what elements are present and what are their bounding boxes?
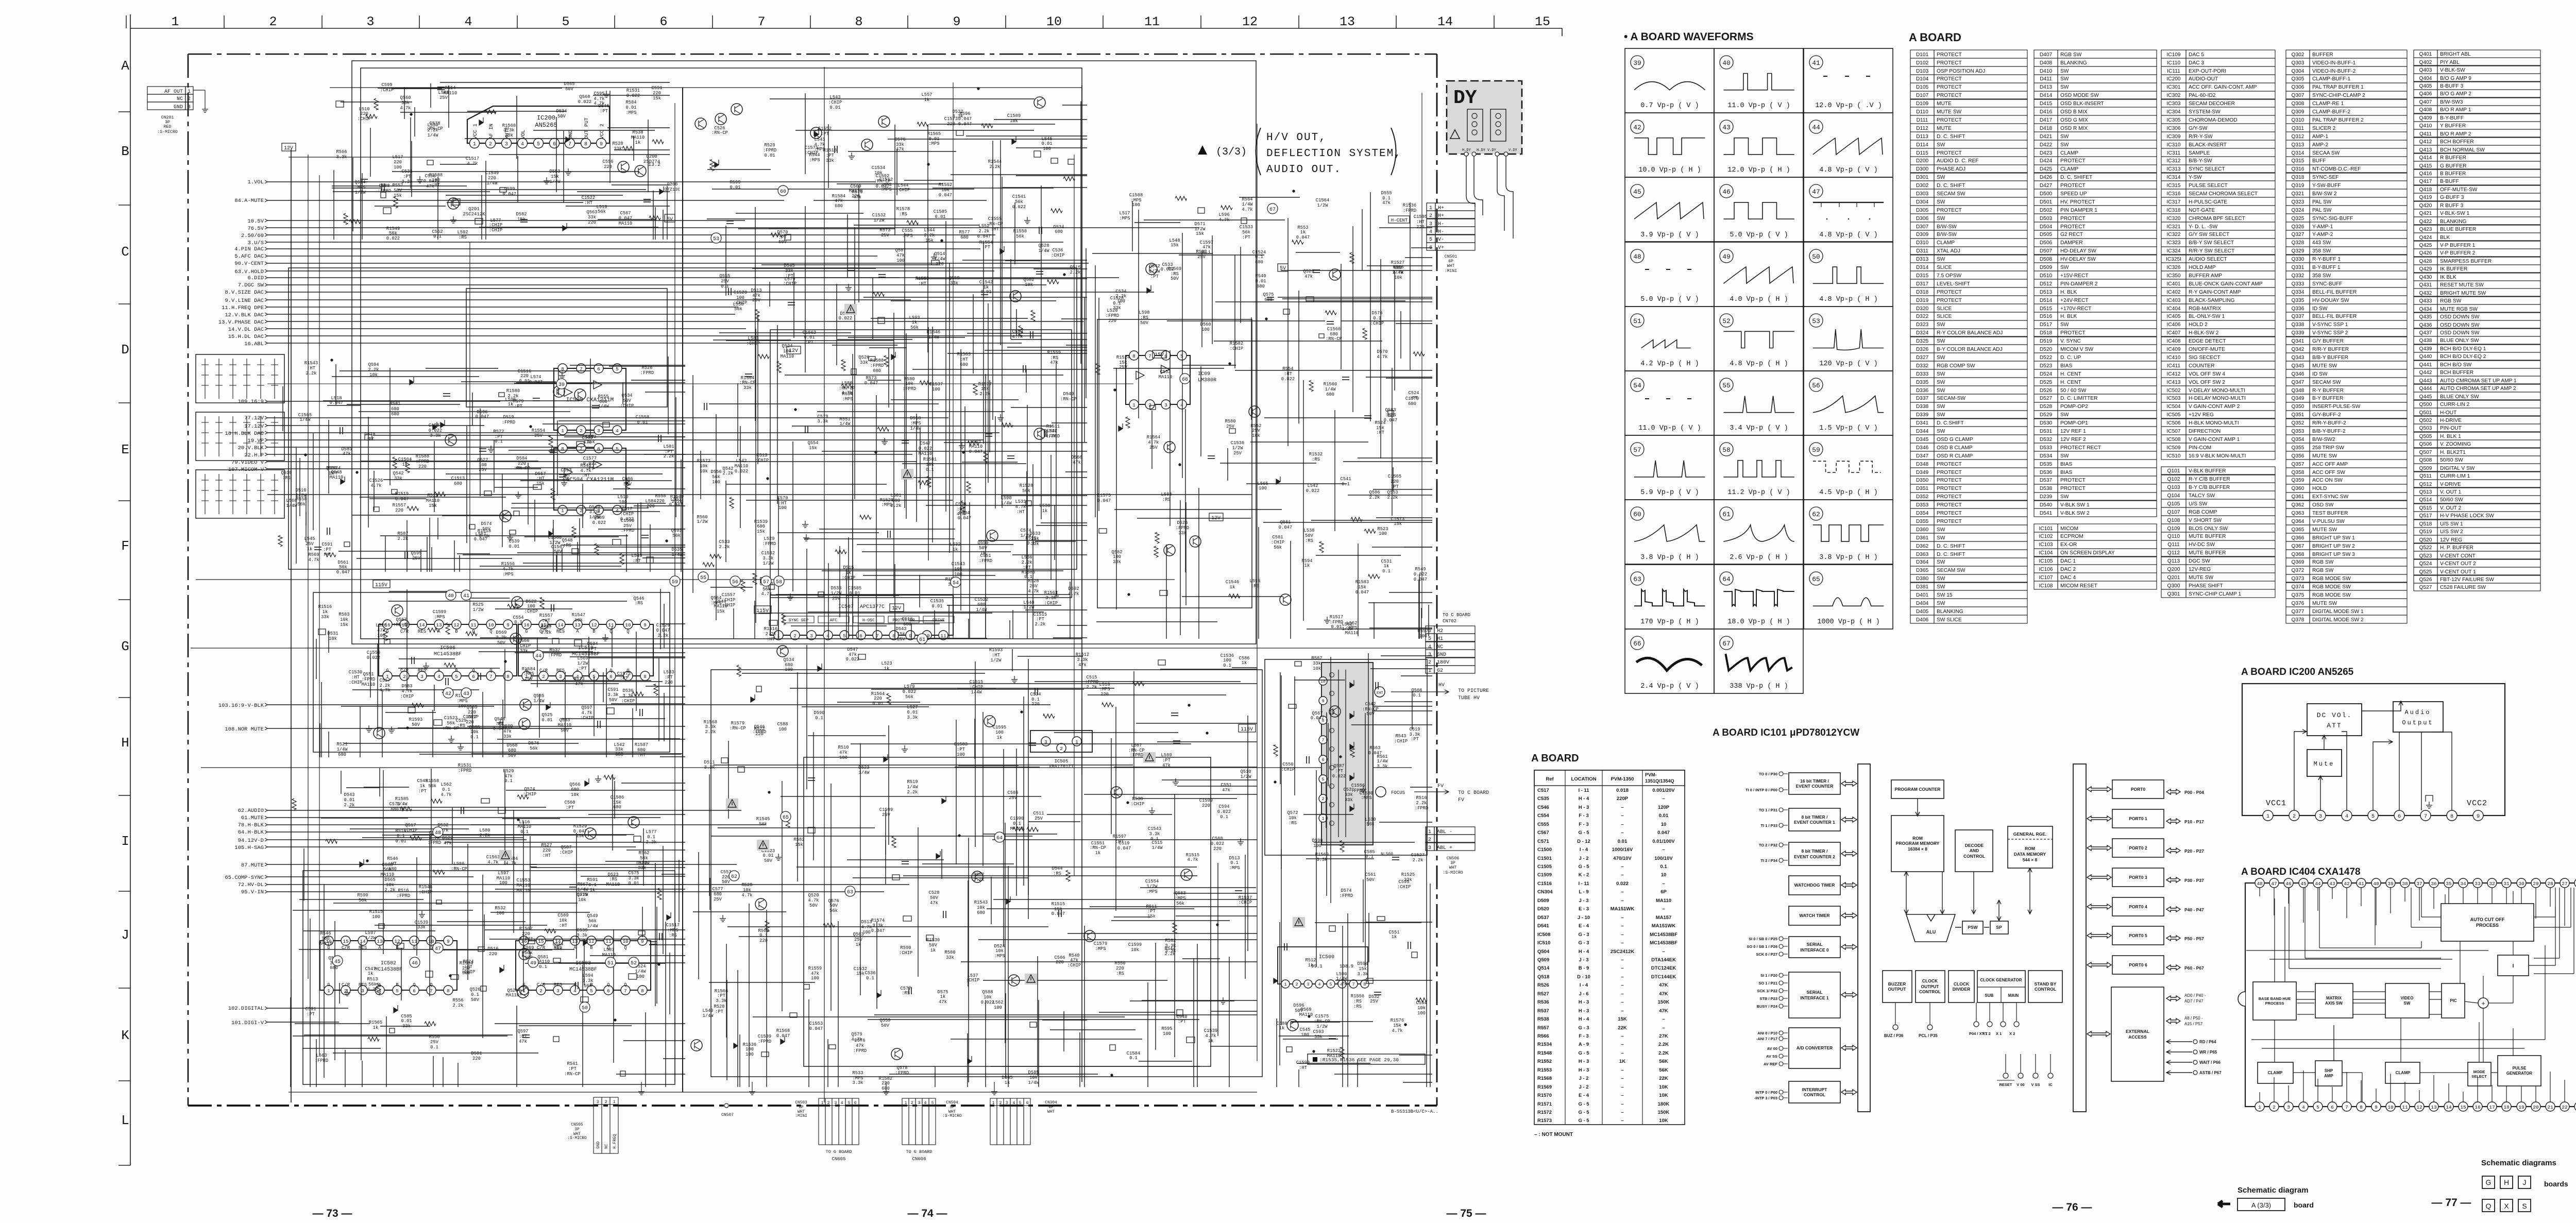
svg-text:PORT0 5: PORT0 5 xyxy=(2129,933,2147,938)
svg-text:D111: D111 xyxy=(1917,117,1928,123)
svg-text::MPS: :MPS xyxy=(354,185,365,190)
waveform 62 xyxy=(1804,500,1893,564)
waveform 65 xyxy=(1804,565,1893,629)
svg-text:0.1: 0.1 xyxy=(759,933,768,938)
svg-text:2.2k: 2.2k xyxy=(890,503,901,508)
svg-text:680: 680 xyxy=(714,892,722,897)
svg-text:Q332: Q332 xyxy=(2292,273,2304,279)
svg-text:50V: 50V xyxy=(778,240,787,245)
svg-text:XTAL ADJ: XTAL ADJ xyxy=(1937,248,1960,254)
svg-text:1/2W: 1/2W xyxy=(831,591,842,596)
svg-text:SLICE: SLICE xyxy=(1937,265,1952,270)
svg-text:D380: D380 xyxy=(1916,576,1929,582)
svg-text:0.022: 0.022 xyxy=(1332,774,1346,779)
svg-text:NC: NC xyxy=(604,1144,609,1149)
svg-text:C1558: C1558 xyxy=(636,415,649,420)
svg-text:–: – xyxy=(1621,932,1623,938)
svg-text:Q566: Q566 xyxy=(569,782,580,787)
svg-text:0.01: 0.01 xyxy=(1041,141,1052,146)
svg-text:I: I xyxy=(2513,963,2514,969)
svg-text:Q: Q xyxy=(413,982,415,988)
svg-text:C584: C584 xyxy=(1416,1000,1427,1006)
svg-text:0.01: 0.01 xyxy=(935,214,945,219)
svg-text:56k: 56k xyxy=(383,867,392,872)
svg-text:Q509: Q509 xyxy=(2419,466,2432,471)
svg-text::MPS: :MPS xyxy=(434,615,445,620)
svg-text:H. CENT: H. CENT xyxy=(2060,371,2081,377)
svg-text:G BUFFER: G BUFFER xyxy=(2440,163,2467,169)
svg-text:(3/3): (3/3) xyxy=(1216,146,1247,158)
svg-text:43: 43 xyxy=(2329,881,2335,887)
op-amp IC504 CXA1211M xyxy=(554,448,626,510)
svg-text:R529: R529 xyxy=(503,769,514,774)
svg-text:3.3k: 3.3k xyxy=(872,923,883,928)
svg-text:47k: 47k xyxy=(562,478,570,483)
svg-text:C1515: C1515 xyxy=(970,680,983,685)
svg-text:16:9 V-BLK MON-MULTI: 16:9 V-BLK MON-MULTI xyxy=(2189,453,2246,459)
svg-text:L587: L587 xyxy=(603,947,614,953)
svg-text:H-V PHASE LOCK SW: H-V PHASE LOCK SW xyxy=(2440,513,2494,519)
svg-text:21: 21 xyxy=(2547,1105,2553,1110)
svg-text:C586: C586 xyxy=(1007,790,1018,795)
svg-text:BCH B/O DLY-EQ 1: BCH B/O DLY-EQ 1 xyxy=(2440,346,2486,352)
svg-text:C1543: C1543 xyxy=(1148,826,1161,831)
svg-text:Q355: Q355 xyxy=(2292,445,2304,451)
svg-text:5: 5 xyxy=(1180,353,1183,359)
svg-text:1: 1 xyxy=(1429,206,1432,211)
svg-text:J - 2: J - 2 xyxy=(1579,856,1588,861)
svg-text:3.3k: 3.3k xyxy=(503,128,514,133)
svg-text:0.047: 0.047 xyxy=(1296,235,1310,240)
svg-text:CONTROL: CONTROL xyxy=(1963,854,1985,859)
svg-text:33k: 33k xyxy=(615,747,623,752)
svg-text:D105: D105 xyxy=(1916,84,1929,90)
svg-text:Q342: Q342 xyxy=(2292,347,2304,352)
signal table column D101 xyxy=(1910,50,1934,58)
svg-text:1: 1 xyxy=(1428,829,1431,835)
svg-text:OSD R MIX: OSD R MIX xyxy=(2060,126,2088,131)
svg-text:3.3k: 3.3k xyxy=(628,876,639,881)
svg-text:680: 680 xyxy=(1264,297,1273,302)
svg-text:12: 12 xyxy=(2416,1105,2422,1110)
Audio Output box xyxy=(2393,702,2443,732)
svg-text:Q419: Q419 xyxy=(2419,195,2432,200)
svg-text:4.0 Vp-p ( H ): 4.0 Vp-p ( H ) xyxy=(1730,296,1788,303)
svg-text:100: 100 xyxy=(957,752,965,757)
svg-text:D333: D333 xyxy=(1916,371,1929,377)
svg-text:HV: HV xyxy=(1438,683,1445,688)
svg-text:11: 11 xyxy=(2402,1105,2408,1110)
svg-text:L532: L532 xyxy=(950,542,960,547)
svg-text::HT: :HT xyxy=(767,637,775,642)
svg-text:Q437: Q437 xyxy=(2419,330,2432,336)
svg-text:10: 10 xyxy=(2387,1105,2394,1110)
svg-text::CHIP: :CHIP xyxy=(896,188,910,193)
svg-text:IC325I: IC325I xyxy=(2166,257,2181,262)
svg-text:R1583: R1583 xyxy=(957,352,971,357)
svg-text:0.1: 0.1 xyxy=(1342,482,1350,487)
svg-text::FPRD: :FPRD xyxy=(763,148,776,153)
svg-text:D514: D514 xyxy=(2040,298,2053,303)
svg-text:IC403: IC403 xyxy=(2166,298,2181,303)
svg-text:D. C. SHIFT: D. C. SHIFT xyxy=(1937,134,1965,140)
svg-text:15k: 15k xyxy=(795,842,803,847)
svg-text:PROTECT: PROTECT xyxy=(1937,470,1962,475)
svg-text:SHP: SHP xyxy=(2325,1068,2333,1073)
svg-text:Q585: Q585 xyxy=(533,693,544,699)
svg-text:BLOS ONLY SW: BLOS ONLY SW xyxy=(2189,526,2228,532)
svg-text:1k: 1k xyxy=(590,888,596,893)
svg-text:D565: D565 xyxy=(564,81,574,87)
IC101 port boxes xyxy=(2112,780,2164,799)
svg-text:41: 41 xyxy=(463,593,469,599)
svg-text:56k: 56k xyxy=(640,856,648,861)
program counter xyxy=(1891,780,1944,799)
svg-text:SCK 0 / P27: SCK 0 / P27 xyxy=(1756,952,1777,957)
svg-text:Q439: Q439 xyxy=(2419,346,2432,352)
waveform 41 xyxy=(1804,48,1893,113)
svg-text:5: 5 xyxy=(2371,813,2375,820)
svg-text:CURR-LIN 2: CURR-LIN 2 xyxy=(2440,402,2470,407)
svg-text:1/2W: 1/2W xyxy=(1240,774,1251,779)
boxed label 12V xyxy=(282,143,296,151)
svg-text:PROTECT: PROTECT xyxy=(1937,52,1962,58)
svg-text:D313: D313 xyxy=(1916,257,1929,262)
svg-text:F - 3: F - 3 xyxy=(1579,813,1589,819)
svg-text:C567: C567 xyxy=(1537,830,1549,836)
svg-text:C1588: C1588 xyxy=(1129,193,1143,198)
svg-text:VIDEO: VIDEO xyxy=(2401,996,2414,1000)
svg-text:15k: 15k xyxy=(717,609,725,614)
svg-text:50V: 50V xyxy=(508,753,517,758)
svg-text:19: 19 xyxy=(2518,1105,2524,1110)
svg-text:Q566: Q566 xyxy=(1411,688,1422,693)
svg-text:220: 220 xyxy=(936,262,944,267)
svg-text:R1583: R1583 xyxy=(1355,580,1369,585)
svg-text:Q343: Q343 xyxy=(2292,355,2304,361)
svg-text:220: 220 xyxy=(1416,225,1425,230)
svg-text::HT: :HT xyxy=(1284,371,1292,377)
svg-text:PROCESS: PROCESS xyxy=(2476,923,2499,928)
svg-text:D558: D558 xyxy=(910,416,921,421)
svg-text:BRIGHT ABL: BRIGHT ABL xyxy=(2440,52,2471,57)
svg-text:1/4W: 1/4W xyxy=(1336,976,1347,981)
matrix axis sw xyxy=(2315,983,2353,1018)
waveform 51 xyxy=(1625,307,1714,371)
svg-text:8: 8 xyxy=(506,674,510,680)
svg-text::MPS: :MPS xyxy=(667,928,678,933)
svg-text:Q309: Q309 xyxy=(2292,109,2304,115)
svg-text:C591: C591 xyxy=(305,1007,316,1012)
svg-text:R582: R582 xyxy=(1165,938,1176,943)
svg-text:Q519: Q519 xyxy=(2419,529,2432,535)
svg-text:AUDIO SELECT: AUDIO SELECT xyxy=(2189,257,2227,262)
svg-text:MA151WK: MA151WK xyxy=(1652,923,1676,929)
sub-circuit enclosure outlines xyxy=(196,61,1427,1084)
svg-text:1k: 1k xyxy=(912,320,918,325)
svg-text:R543: R543 xyxy=(1395,734,1406,739)
svg-text:PROTECT: PROTECT xyxy=(1937,150,1962,156)
svg-text:Q305: Q305 xyxy=(2292,76,2304,82)
svg-text::CHIP: :CHIP xyxy=(966,978,979,983)
svg-text:PROTECT: PROTECT xyxy=(2060,216,2086,222)
svg-text:BUFF: BUFF xyxy=(2312,158,2326,164)
svg-text::FPRD: :FPRD xyxy=(458,768,471,773)
svg-text:5.AFC DAC: 5.AFC DAC xyxy=(234,253,264,260)
svg-text:V GAIN-CONT AMP 2: V GAIN-CONT AMP 2 xyxy=(2189,404,2240,410)
svg-text:C1566: C1566 xyxy=(1327,327,1341,332)
svg-text:H: H xyxy=(2504,1178,2509,1186)
svg-text:DAC 1: DAC 1 xyxy=(2060,558,2076,564)
svg-text:56k: 56k xyxy=(588,919,597,924)
svg-text:0.047: 0.047 xyxy=(1384,418,1397,423)
transistor Q201 2SC2412K xyxy=(448,198,459,209)
svg-text:4: 4 xyxy=(1429,229,1432,235)
svg-text:30: 30 xyxy=(2518,881,2524,887)
svg-text:C1543: C1543 xyxy=(952,562,965,567)
svg-text:-ANI 7 / P17: -ANI 7 / P17 xyxy=(1756,1037,1777,1041)
svg-text:680: 680 xyxy=(454,481,462,486)
svg-text:V-BLK-SW: V-BLK-SW xyxy=(2440,67,2465,73)
svg-text:4: 4 xyxy=(2345,813,2348,820)
svg-text:L519: L519 xyxy=(617,495,628,500)
svg-text:X 2: X 2 xyxy=(2009,1031,2015,1036)
svg-text:4.7k: 4.7k xyxy=(1205,1033,1216,1039)
svg-text:D516: D516 xyxy=(487,946,498,952)
svg-text:4: 4 xyxy=(924,1101,927,1106)
svg-text:C588: C588 xyxy=(379,183,389,189)
svg-text:3.3k: 3.3k xyxy=(1357,972,1368,977)
svg-text:3: 3 xyxy=(361,988,364,994)
svg-text:3.3k: 3.3k xyxy=(1316,857,1327,862)
svg-text:D306: D306 xyxy=(1916,216,1929,222)
svg-text:100: 100 xyxy=(736,295,744,300)
svg-text:0.1: 0.1 xyxy=(1660,864,1667,870)
svg-text:— 77 —: — 77 — xyxy=(2431,1197,2471,1209)
waveform 66 xyxy=(1625,629,1714,693)
svg-text:Q361: Q361 xyxy=(2292,494,2304,500)
svg-text:1k: 1k xyxy=(924,97,930,103)
sum node xyxy=(2478,998,2488,1008)
svg-text:13: 13 xyxy=(377,939,383,944)
svg-text:102.DIGITAL: 102.DIGITAL xyxy=(228,1006,264,1012)
svg-text:PROTECT RECT: PROTECT RECT xyxy=(2060,445,2101,451)
svg-text:Q520: Q520 xyxy=(808,893,819,898)
svg-text:Q103: Q103 xyxy=(2167,485,2180,490)
svg-text:54: 54 xyxy=(1633,382,1641,389)
svg-text:Q321: Q321 xyxy=(2292,191,2304,197)
svg-text::HT: :HT xyxy=(1376,430,1384,435)
svg-text:4.7k: 4.7k xyxy=(1218,217,1229,223)
svg-text:R-Y-BUFF 1: R-Y-BUFF 1 xyxy=(2312,257,2341,262)
svg-text:0.022: 0.022 xyxy=(386,236,400,241)
svg-text:AUTO CMROMA SET UP AMP 1: AUTO CMROMA SET UP AMP 1 xyxy=(2440,378,2517,384)
svg-text:16.ABL: 16.ABL xyxy=(244,341,264,347)
svg-text:0.01: 0.01 xyxy=(1618,839,1628,844)
svg-text:D345: D345 xyxy=(1916,437,1929,443)
svg-text:Schematic diagram: Schematic diagram xyxy=(2238,1186,2309,1195)
svg-text::PT: :PT xyxy=(566,805,574,810)
svg-text:33k: 33k xyxy=(1314,1034,1323,1040)
svg-text:2.2k: 2.2k xyxy=(924,233,935,238)
svg-text:Q557: Q557 xyxy=(1417,629,1428,634)
svg-text:3: 3 xyxy=(1428,845,1431,851)
svg-text::RS: :RS xyxy=(1353,999,1362,1004)
svg-text::FPRD: :FPRD xyxy=(853,1048,867,1054)
svg-text:L580: L580 xyxy=(479,828,490,833)
svg-text:H. BLK 1: H. BLK 1 xyxy=(2440,434,2461,439)
svg-text:680: 680 xyxy=(960,362,968,367)
svg-text:D543: D543 xyxy=(895,626,906,632)
svg-text:IC404: IC404 xyxy=(2166,306,2181,312)
svg-text:Q440: Q440 xyxy=(2419,354,2432,360)
svg-text:RES: RES xyxy=(418,668,426,673)
svg-text:–: – xyxy=(1662,881,1665,887)
svg-text:1/2W: 1/2W xyxy=(990,658,1002,663)
svg-text:H-: H- xyxy=(1438,222,1444,227)
svg-text:2.2k: 2.2k xyxy=(1387,495,1398,500)
svg-text:4: 4 xyxy=(464,14,472,29)
svg-text::RS: :RS xyxy=(1353,1004,1362,1009)
svg-text:Q434: Q434 xyxy=(2419,307,2432,312)
svg-text:56k: 56k xyxy=(428,784,436,789)
svg-text::CHIP: :CHIP xyxy=(783,281,796,286)
svg-text:IC110: IC110 xyxy=(2167,60,2181,66)
svg-text:56k: 56k xyxy=(712,474,720,480)
svg-text:680: 680 xyxy=(977,910,985,915)
svg-text:43: 43 xyxy=(463,691,469,697)
svg-text:1/2W: 1/2W xyxy=(762,561,774,566)
svg-text:H. BLK: H. BLK xyxy=(2060,314,2077,319)
svg-text:INTERRUPT: INTERRUPT xyxy=(1802,1087,1827,1092)
svg-text:3: 3 xyxy=(556,988,560,994)
svg-text:2: 2 xyxy=(2273,1105,2276,1110)
svg-text:R516: R516 xyxy=(398,888,409,893)
svg-text:33k: 33k xyxy=(1178,531,1187,536)
svg-text:150K: 150K xyxy=(1658,999,1670,1005)
svg-text:Q323: Q323 xyxy=(2292,199,2304,205)
svg-text:0.1: 0.1 xyxy=(1382,569,1391,574)
svg-text:10k: 10k xyxy=(574,618,583,623)
svg-text:10: 10 xyxy=(1661,822,1667,827)
svg-text::MPS: :MPS xyxy=(1385,413,1396,418)
svg-text:–: – xyxy=(1621,965,1623,971)
ROM program memory xyxy=(1891,816,1944,872)
svg-text::RS: :RS xyxy=(459,235,467,240)
svg-text:C1590: C1590 xyxy=(621,518,634,523)
svg-text:D568: D568 xyxy=(506,743,517,748)
svg-text:220: 220 xyxy=(665,680,673,685)
svg-text:1: 1 xyxy=(1284,982,1286,987)
svg-text:3.3k: 3.3k xyxy=(762,556,773,561)
svg-text:35: 35 xyxy=(2446,881,2452,887)
svg-text:V-SYNC SSP 2: V-SYNC SSP 2 xyxy=(2312,330,2348,336)
svg-text:56k: 56k xyxy=(530,746,538,751)
svg-text::MPS: :MPS xyxy=(842,397,853,402)
svg-text:8: 8 xyxy=(584,141,587,147)
svg-text:SW: SW xyxy=(2060,453,2069,459)
svg-text:33: 33 xyxy=(2475,881,2481,887)
svg-text::PT: :PT xyxy=(1391,484,1399,489)
svg-text:V. OUT 1: V. OUT 1 xyxy=(2440,489,2462,495)
svg-text:AFC: AFC xyxy=(830,618,838,623)
svg-text:–: – xyxy=(1662,1016,1665,1022)
svg-text:32: 32 xyxy=(2489,881,2495,887)
wire cluster (640,150)-(1300,465) xyxy=(332,82,670,240)
svg-text:10K: 10K xyxy=(1659,1084,1668,1090)
svg-text:MUTE: MUTE xyxy=(1937,126,1952,131)
svg-text:SW: SW xyxy=(2060,76,2069,82)
svg-text::RS: :RS xyxy=(609,877,617,882)
svg-text:2: 2 xyxy=(793,633,796,639)
svg-text:SYSTEM-SW: SYSTEM-SW xyxy=(2189,109,2221,115)
svg-text:PROTECT: PROTECT xyxy=(2060,478,2086,483)
svg-text:D424: D424 xyxy=(2040,158,2053,164)
svg-text:HV. PROTECT: HV. PROTECT xyxy=(2060,199,2095,205)
svg-text:–: – xyxy=(1621,915,1623,921)
svg-text:0.01: 0.01 xyxy=(907,710,918,715)
waveform 42 xyxy=(1625,113,1714,177)
boxed voltage labels xyxy=(787,346,801,354)
svg-text:MUTE RGB SW: MUTE RGB SW xyxy=(2440,307,2478,312)
svg-text:TI 1 / P33: TI 1 / P33 xyxy=(1760,823,1777,828)
svg-text:3: 3 xyxy=(810,633,813,639)
flyback diode ladder xyxy=(1350,680,1354,688)
svg-text:Q518: Q518 xyxy=(1537,974,1549,980)
svg-text:2: 2 xyxy=(403,674,406,680)
svg-text::HT: :HT xyxy=(351,675,360,680)
svg-text:B/O R AMP 2: B/O R AMP 2 xyxy=(2440,131,2471,137)
svg-text:CN501: CN501 xyxy=(1445,254,1458,259)
svg-text:57: 57 xyxy=(1633,446,1641,454)
svg-text:33k: 33k xyxy=(743,385,752,390)
svg-text:CURR-LIM 1: CURR-LIM 1 xyxy=(2440,473,2470,479)
svg-text:VIDEO-IN-BUFF-1: VIDEO-IN-BUFF-1 xyxy=(2312,60,2356,66)
svg-text:PORT0 2: PORT0 2 xyxy=(2129,845,2147,851)
svg-text:4.7k: 4.7k xyxy=(741,893,752,898)
svg-text:D544: D544 xyxy=(1052,866,1062,871)
svg-text:C1577: C1577 xyxy=(583,456,597,461)
svg-text:MUTE SW: MUTE SW xyxy=(1937,109,1961,115)
svg-text:OSD G CLAMP: OSD G CLAMP xyxy=(1937,437,1973,443)
svg-text:H-DRIVE: H-DRIVE xyxy=(2440,418,2462,423)
svg-text:1k: 1k xyxy=(1304,563,1310,568)
svg-text:NC: NC xyxy=(177,96,183,102)
svg-text:IC320: IC320 xyxy=(2166,216,2181,222)
svg-text:D427: D427 xyxy=(2040,183,2053,189)
svg-text:PIN-COM: PIN-COM xyxy=(2189,445,2211,451)
svg-text:HOLD AMP: HOLD AMP xyxy=(2189,265,2216,270)
svg-text:SLICER 2: SLICER 2 xyxy=(2312,126,2336,131)
svg-text:U/S SW 1: U/S SW 1 xyxy=(2440,521,2463,527)
svg-text:G/Y BUFFER: G/Y BUFFER xyxy=(2312,338,2344,344)
svg-text:220: 220 xyxy=(588,220,596,225)
svg-text:R529: R529 xyxy=(764,143,775,148)
svg-text:C591: C591 xyxy=(321,542,332,547)
svg-text:A8 / P50 -: A8 / P50 - xyxy=(2184,1016,2203,1021)
svg-text:25V: 25V xyxy=(854,937,863,942)
svg-text:L595: L595 xyxy=(1249,579,1260,584)
svg-text:1/2W: 1/2W xyxy=(697,519,708,524)
svg-text:L528: L528 xyxy=(1107,308,1117,313)
svg-text:47k: 47k xyxy=(957,512,965,517)
svg-text:47: 47 xyxy=(2271,881,2277,887)
svg-text:D525: D525 xyxy=(2040,380,2053,385)
svg-text:D590: D590 xyxy=(814,710,824,716)
svg-text:PROTECT: PROTECT xyxy=(1937,502,1962,508)
svg-text:680: 680 xyxy=(873,368,881,373)
svg-text:Q377: Q377 xyxy=(2292,609,2304,615)
